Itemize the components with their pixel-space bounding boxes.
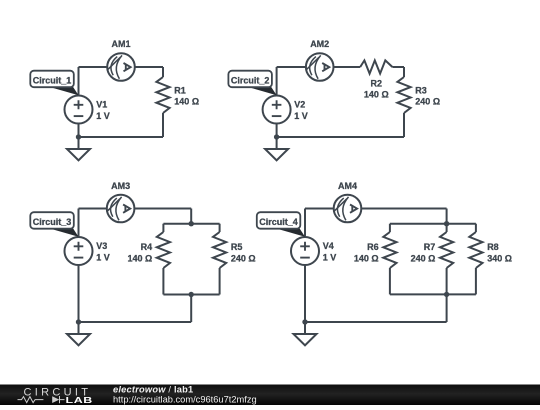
wire xyxy=(392,66,404,68)
svg-text:140 Ω: 140 Ω xyxy=(364,90,389,100)
resistor R3 body xyxy=(397,77,410,113)
ground xyxy=(67,322,90,345)
svg-text:Circuit_1: Circuit_1 xyxy=(33,75,72,85)
svg-text:140 Ω: 140 Ω xyxy=(174,97,199,107)
svg-text:AM1: AM1 xyxy=(111,39,130,49)
wire xyxy=(162,113,164,137)
voltage source V3 xyxy=(65,237,93,265)
wire xyxy=(162,268,164,295)
voltage source V1 xyxy=(65,96,93,124)
wire xyxy=(389,268,391,294)
svg-text:Circuit_2: Circuit_2 xyxy=(231,75,270,85)
svg-text:V2: V2 xyxy=(294,100,305,110)
wire xyxy=(78,124,80,138)
junction node xyxy=(76,134,81,139)
wire xyxy=(79,66,164,68)
wire xyxy=(163,294,219,296)
wire xyxy=(78,67,80,96)
svg-text:240 Ω: 240 Ω xyxy=(411,253,436,263)
svg-text:AM4: AM4 xyxy=(338,181,357,191)
svg-text:240 Ω: 240 Ω xyxy=(415,97,440,107)
net label callout Circuit_4 xyxy=(257,212,305,237)
svg-text:140 Ω: 140 Ω xyxy=(127,253,152,263)
svg-text:LAB: LAB xyxy=(66,396,93,405)
svg-text:R3: R3 xyxy=(415,86,427,96)
junction node xyxy=(189,221,194,226)
junction node xyxy=(444,221,449,226)
svg-text:AM3: AM3 xyxy=(111,181,130,191)
svg-text:R4: R4 xyxy=(141,242,153,252)
resistor R4 body xyxy=(157,232,170,268)
ammeter AM1 xyxy=(107,53,135,81)
wire xyxy=(403,67,405,77)
wire xyxy=(190,295,192,323)
resistor R5 body xyxy=(213,232,226,268)
wire xyxy=(304,265,306,322)
ammeter AM3 xyxy=(107,195,135,223)
wire xyxy=(277,136,404,138)
svg-text:Circuit_4: Circuit_4 xyxy=(259,217,298,227)
wire xyxy=(446,268,448,294)
svg-text:240 Ω: 240 Ω xyxy=(231,253,256,263)
wire xyxy=(78,265,80,322)
svg-text:http://circuitlab.com/c96t6u7t: http://circuitlab.com/c96t6u7t2mfzg xyxy=(113,394,257,404)
ground xyxy=(294,322,317,345)
svg-text:R6: R6 xyxy=(367,242,379,252)
svg-text:R8: R8 xyxy=(487,242,499,252)
wire xyxy=(79,136,164,138)
resistor R8 body xyxy=(469,232,482,268)
svg-text:340 Ω: 340 Ω xyxy=(487,253,512,263)
junction node xyxy=(274,134,279,139)
voltage source V2 xyxy=(263,96,291,124)
wire xyxy=(190,209,192,224)
wire xyxy=(277,66,361,68)
resistor R2 body xyxy=(360,60,392,73)
wire xyxy=(475,268,477,294)
wire xyxy=(276,124,278,138)
wire xyxy=(305,208,447,210)
svg-text:V3: V3 xyxy=(96,241,107,251)
ammeter AM2 xyxy=(306,53,334,81)
svg-text:R1: R1 xyxy=(174,86,186,96)
svg-text:140 Ω: 140 Ω xyxy=(354,253,379,263)
ground xyxy=(265,137,288,160)
wire xyxy=(219,224,221,232)
wire xyxy=(78,209,80,238)
net label callout Circuit_3 xyxy=(30,212,78,237)
wire xyxy=(163,223,219,225)
wire xyxy=(276,67,278,96)
net label callout Circuit_1 xyxy=(30,71,78,96)
junction node xyxy=(302,319,307,324)
wire xyxy=(304,209,306,238)
svg-text:1 V: 1 V xyxy=(96,111,110,121)
net label callout Circuit_2 xyxy=(228,71,276,96)
CircuitLab logo xyxy=(18,387,93,406)
junction node xyxy=(444,292,449,297)
wire xyxy=(475,224,477,232)
ground xyxy=(67,137,90,160)
wire xyxy=(219,268,221,295)
wire xyxy=(389,224,391,232)
wire xyxy=(162,67,164,77)
svg-text:1 V: 1 V xyxy=(96,252,110,262)
svg-text:R2: R2 xyxy=(371,78,383,88)
svg-text:1 V: 1 V xyxy=(323,252,337,262)
wire xyxy=(79,321,192,323)
wire xyxy=(446,294,448,322)
ammeter AM4 xyxy=(334,195,362,223)
wire xyxy=(390,293,476,295)
svg-text:R7: R7 xyxy=(424,242,436,252)
svg-text:electrowow / lab1: electrowow / lab1 xyxy=(113,385,193,395)
voltage source V4 xyxy=(291,237,319,265)
svg-text:AM2: AM2 xyxy=(310,39,329,49)
svg-text:Circuit_3: Circuit_3 xyxy=(33,217,72,227)
wire xyxy=(390,223,476,225)
wire xyxy=(305,321,447,323)
svg-text:1 V: 1 V xyxy=(294,111,308,121)
junction node xyxy=(76,319,81,324)
wire xyxy=(446,209,448,224)
svg-text:V1: V1 xyxy=(96,100,107,110)
wire xyxy=(162,224,164,232)
svg-text:R5: R5 xyxy=(231,242,243,252)
wire xyxy=(446,224,448,232)
svg-text:V4: V4 xyxy=(323,241,334,251)
wire xyxy=(403,113,405,137)
resistor R6 body xyxy=(383,232,396,268)
resistor R1 body xyxy=(156,77,169,113)
resistor R7 body xyxy=(440,232,453,268)
wire xyxy=(79,208,192,210)
junction node xyxy=(189,292,194,297)
